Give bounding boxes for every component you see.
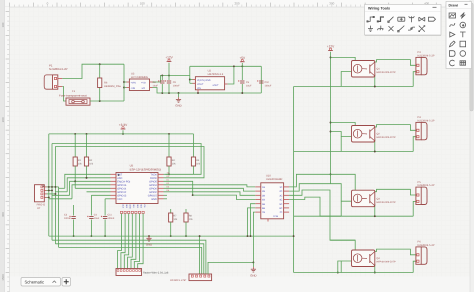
svg-text:HFP4N-009-Z07P: HFP4N-009-Z07P xyxy=(377,136,397,139)
wire U3 out+ rail xyxy=(153,76,190,83)
svg-text:NJ128H4-5-2P: NJ128H4-5-2P xyxy=(49,67,68,71)
right scrollbar xyxy=(470,0,474,292)
wire bottom rail 1 xyxy=(49,235,294,237)
junction xyxy=(330,173,332,175)
junction xyxy=(48,186,50,188)
wire loop B xyxy=(55,147,204,178)
svg-text:+5V: +5V xyxy=(239,56,246,60)
junction xyxy=(185,235,187,237)
wire Q3 source drop xyxy=(374,204,376,216)
add sheet button xyxy=(62,278,71,287)
wire U10 emitter rail xyxy=(208,212,255,274)
junction xyxy=(148,235,150,237)
tool icon net label xyxy=(398,17,405,21)
wire from R6 bottom xyxy=(99,88,101,102)
tool icon draw wire xyxy=(398,26,405,32)
wire Q4 drain to P6.1 xyxy=(375,249,416,255)
junction xyxy=(51,186,53,188)
ground GND2 xyxy=(252,267,254,269)
wire C4 bottom xyxy=(90,220,92,237)
resistor R6 xyxy=(98,78,102,88)
resistor R1 xyxy=(73,157,77,166)
wire C3 top xyxy=(73,205,75,216)
junction xyxy=(199,235,201,237)
junction xyxy=(241,92,243,94)
driver U10 ULN2003 xyxy=(261,183,284,219)
ground GND1 xyxy=(148,236,150,238)
wire Q4 source drop xyxy=(374,264,376,273)
wire +12V stub xyxy=(168,63,170,76)
junction xyxy=(104,235,106,237)
tool icon net port xyxy=(429,17,436,21)
junction xyxy=(178,92,180,94)
wire to R6 top xyxy=(99,64,101,78)
wire P2.1 jog xyxy=(47,186,59,188)
svg-text:Raster-Wire-2.54_1x8: Raster-Wire-2.54_1x8 xyxy=(143,271,169,274)
junction xyxy=(161,75,163,77)
wire gnd stub xyxy=(178,93,180,97)
ground GND power xyxy=(178,97,180,99)
svg-text:+12V: +12V xyxy=(165,56,173,60)
junction xyxy=(241,65,243,67)
wire MCU to U10 in3 xyxy=(164,192,256,196)
MCU U5 ESP-12F xyxy=(116,173,158,204)
wire Q3 left loop xyxy=(341,201,351,216)
wire Q3 bottom rail xyxy=(341,215,413,217)
tool icon ellipse xyxy=(460,51,466,57)
junction xyxy=(330,56,332,58)
wire R1 top xyxy=(74,134,76,157)
wire feed Q2 top xyxy=(331,123,356,126)
svg-text:2C: 2C xyxy=(279,190,282,193)
tool icon wire xyxy=(367,16,374,22)
wire GND2 stub xyxy=(252,262,254,267)
wire bottom rail 2 xyxy=(52,240,206,274)
connector P2 xyxy=(35,185,45,202)
wire rail left drop xyxy=(189,66,191,75)
wire Q1 drain to P3.1 xyxy=(375,60,416,66)
relay Q2 xyxy=(352,126,375,143)
svg-text:10uF: 10uF xyxy=(246,85,252,88)
regulator U2 xyxy=(195,77,224,90)
junction xyxy=(189,79,191,81)
resistor R8 xyxy=(184,213,188,222)
wire header pin 1 xyxy=(118,214,122,269)
wire U10 out3 to block4 xyxy=(289,190,355,240)
svg-text:200: 200 xyxy=(234,2,239,6)
wire Q2 bottom rail xyxy=(341,151,413,153)
wire mcuR3 jog xyxy=(164,181,193,195)
svg-text:ESP-12F(ESP8266MOD): ESP-12F(ESP8266MOD) xyxy=(130,167,162,171)
wire loop right side xyxy=(123,64,125,101)
svg-text:+VO: +VO xyxy=(141,81,146,84)
junction xyxy=(54,186,56,188)
tool icon bus xyxy=(377,17,384,22)
bottom status strip xyxy=(0,277,474,293)
wire Q2 left loop xyxy=(341,137,351,152)
wire Q2 drain to P4.1 xyxy=(375,125,416,131)
wire Q2 circle feed xyxy=(331,132,342,137)
wire R2 top xyxy=(86,134,88,157)
wire loop A xyxy=(52,144,201,175)
tool icon pencil xyxy=(450,41,456,47)
svg-text:1500: 1500 xyxy=(1,274,5,281)
svg-text:100nF: 100nF xyxy=(108,217,115,220)
junction xyxy=(168,92,170,94)
wire mcuR7 stub xyxy=(164,194,168,196)
wire V1 to block1 bottom xyxy=(294,86,342,88)
wire HF pin1 drop xyxy=(199,236,201,274)
net flag +3.3V xyxy=(121,128,126,130)
tool icon bus entry xyxy=(388,17,394,23)
wire V1 to Q2 bottom rail xyxy=(294,151,342,153)
junction xyxy=(374,272,376,274)
svg-text:+12V: +12V xyxy=(327,45,335,49)
wire Q3 to P5.2 xyxy=(413,201,416,216)
wire C8 top xyxy=(161,76,163,81)
junction xyxy=(252,261,254,263)
junction xyxy=(74,180,76,182)
tool icon image xyxy=(449,13,455,18)
tool icon probe xyxy=(408,27,415,30)
wire header pin 5 xyxy=(131,214,136,269)
svg-text:VI(12V) GND: VI(12V) GND xyxy=(197,79,211,82)
dc-dc module U3 xyxy=(129,79,149,91)
junction xyxy=(48,196,50,198)
junction xyxy=(99,100,101,102)
wire MCU L3 xyxy=(70,181,111,195)
wire to U3 pin1 xyxy=(124,81,127,83)
tool icon arrow xyxy=(450,32,455,37)
wire MCU L1 xyxy=(65,174,111,188)
junction xyxy=(90,235,92,237)
wire C8 bottom xyxy=(161,84,163,93)
wire bottom rail 4 xyxy=(59,247,202,274)
svg-text:+VIN: +VIN xyxy=(131,81,137,84)
svg-text:HFP4N-009-Z07P: HFP4N-009-Z07P xyxy=(377,261,397,264)
wire C9 top xyxy=(168,76,170,81)
wire jog L1 xyxy=(59,187,65,189)
junction xyxy=(293,235,295,237)
relay Q1 xyxy=(352,61,375,78)
wire bottom rail 3 xyxy=(55,244,203,274)
svg-text:VCC: VCC xyxy=(117,198,122,201)
capacitor C8 xyxy=(160,80,164,82)
wire R5 top xyxy=(193,134,195,157)
wire C4 top xyxy=(90,205,92,216)
wire mcuR2 xyxy=(164,177,166,179)
junction xyxy=(86,177,88,179)
wire R7 top xyxy=(170,209,172,213)
connector P5 xyxy=(416,187,421,204)
wire Q3 drain to P5.1 xyxy=(375,189,416,195)
wire MCU to U10 in1 xyxy=(164,185,256,187)
svg-text:GND: GND xyxy=(175,104,181,108)
wire header pin 2 xyxy=(121,214,125,269)
junction xyxy=(122,133,124,135)
junction xyxy=(74,133,76,135)
svg-text:4C: 4C xyxy=(279,199,282,202)
sheet tab Schematic xyxy=(21,278,61,287)
wire R4 bottom xyxy=(168,166,170,174)
net flag +12V b xyxy=(328,50,333,52)
tool icon net flag vcc xyxy=(409,16,415,22)
tool icon pie xyxy=(450,60,455,66)
capacitor C5 xyxy=(240,80,244,82)
wire rail V1 xyxy=(293,87,295,273)
wire bundle v2 xyxy=(51,144,53,241)
wire MCU L2 xyxy=(67,178,110,192)
wire R7 bottom xyxy=(170,222,172,236)
svg-text:UT: UT xyxy=(37,207,41,210)
wire mcuR1 xyxy=(164,173,166,175)
capacitor C3 xyxy=(71,216,75,218)
wire Q1 bottom rail xyxy=(341,86,413,88)
wire Q4 to P6.2 xyxy=(413,261,416,272)
wire fuse to loop xyxy=(90,100,124,102)
tool icon text xyxy=(460,32,466,37)
resistor R4 xyxy=(167,157,171,166)
svg-text:VIN: VIN xyxy=(197,87,201,90)
wire U2 out up xyxy=(228,66,234,84)
svg-text:5B: 5B xyxy=(262,203,265,206)
wire header pin 7 xyxy=(138,214,143,269)
wire rail right drop xyxy=(260,66,262,93)
wire MCU L5 xyxy=(75,187,110,189)
tool icon rect xyxy=(460,41,466,47)
tool icon table xyxy=(460,61,466,65)
Wiring Tools palette xyxy=(365,5,442,36)
junction xyxy=(74,180,76,182)
svg-text:COM: COM xyxy=(273,215,278,218)
net flag +12V xyxy=(167,61,172,63)
wire header pin 3 xyxy=(124,214,128,269)
connector P4 xyxy=(416,122,421,139)
tool icon bezier xyxy=(450,23,455,27)
wire U10 out2 up xyxy=(289,184,330,191)
connector P1 xyxy=(44,75,52,89)
junction xyxy=(374,86,376,88)
wire V1 to Q3 bottom rail xyxy=(294,215,342,217)
wire U2 input drop xyxy=(189,76,191,84)
svg-text:5C: 5C xyxy=(279,203,282,206)
svg-text:7C: 7C xyxy=(279,211,282,214)
header J1 1x8 xyxy=(116,269,142,276)
wire Q1 to P3.2 xyxy=(413,72,416,87)
wire C3 bottom xyxy=(73,220,75,237)
tool icon arc xyxy=(460,22,466,28)
svg-text:1B: 1B xyxy=(262,186,265,189)
capacitor C4 xyxy=(89,216,93,218)
svg-text:ULN2003ADR: ULN2003ADR xyxy=(266,178,283,181)
svg-text:-VIN: -VIN xyxy=(131,87,136,90)
svg-text:2B: 2B xyxy=(262,190,265,193)
svg-text:100nF: 100nF xyxy=(173,85,180,88)
wire ground rail xyxy=(153,88,262,94)
wire Q4 left loop xyxy=(340,261,342,273)
wire MCU L7 xyxy=(91,194,110,196)
svg-text:1C: 1C xyxy=(279,186,282,189)
junction xyxy=(197,92,199,94)
svg-text:VOUT: VOUT xyxy=(197,83,204,86)
junction xyxy=(233,65,235,67)
junction xyxy=(247,235,249,237)
wire P1.1 to top rail xyxy=(62,64,124,78)
junction xyxy=(250,235,252,237)
wire to U2 pin2 xyxy=(190,82,193,84)
wire Q2 source drop xyxy=(374,140,376,152)
wire MCU to U10 in4 xyxy=(193,195,256,199)
svg-text:+3.3V: +3.3V xyxy=(119,123,128,127)
svg-text:Wiring Tools: Wiring Tools xyxy=(368,6,390,10)
net flag +5V xyxy=(240,61,245,63)
tool icon polygon xyxy=(450,51,456,57)
junction xyxy=(73,235,75,237)
svg-text:10uF: 10uF xyxy=(94,217,100,220)
svg-text:10uF: 10uF xyxy=(153,85,159,88)
wire jog L3 xyxy=(52,194,70,196)
wire R1 bottom xyxy=(74,166,76,181)
wire Q2 to P4.2 xyxy=(413,137,416,152)
svg-text:HFP4N-009-Z07P: HFP4N-009-Z07P xyxy=(377,201,397,204)
wire mcuR1 ext xyxy=(166,173,170,175)
junction xyxy=(374,215,376,217)
wire header pin 4 xyxy=(128,214,133,269)
wire feed Q1 top xyxy=(331,57,356,60)
wire C11 up xyxy=(104,199,106,205)
wire C11 top xyxy=(104,205,106,216)
wire R2 bottom xyxy=(86,166,88,178)
tool icon no connect xyxy=(389,26,394,31)
svg-text:HFP4N-009-Z07P: HFP4N-009-Z07P xyxy=(377,71,397,74)
wire C9 bottom xyxy=(168,84,170,93)
svg-text:GND: GND xyxy=(250,273,256,277)
svg-text:vOUT: vOUT xyxy=(213,84,220,87)
junction xyxy=(168,133,170,135)
wire header pin 6 xyxy=(134,214,139,269)
wire feed Q4 top xyxy=(331,240,356,250)
tool icon ground xyxy=(368,26,373,32)
svg-text:Fuse-transparent-seat: Fuse-transparent-seat xyxy=(59,94,87,98)
relay Q3 xyxy=(352,190,375,207)
wire P1.2 to fuse xyxy=(62,87,66,102)
wire R8 bottom xyxy=(185,222,187,236)
tool icon ground earth xyxy=(377,26,383,31)
wire MCU L6 xyxy=(87,191,111,193)
junction xyxy=(86,133,88,135)
wire Q1 source drop xyxy=(374,75,376,87)
junction xyxy=(123,81,125,83)
svg-text:U3: U3 xyxy=(131,72,135,75)
wire Q4 bottom rail xyxy=(294,272,414,274)
junction xyxy=(54,193,56,195)
resistor R2 xyxy=(84,157,88,166)
Drawing Tools palette xyxy=(446,2,472,69)
junction xyxy=(99,63,101,65)
wire P2.2 jog xyxy=(47,189,53,191)
wire U10 in6 down xyxy=(248,208,256,236)
svg-text:6B: 6B xyxy=(262,207,265,210)
wire R8 top xyxy=(185,209,187,213)
junction xyxy=(337,272,339,274)
wire U10 out4 down xyxy=(289,197,341,216)
tool icon delete wire xyxy=(419,26,425,32)
svg-text:3C: 3C xyxy=(279,194,282,197)
svg-text:Drawi: Drawi xyxy=(449,3,459,7)
wire C5 top xyxy=(241,66,243,80)
svg-text:GND: GND xyxy=(151,198,157,201)
wire C4 up xyxy=(90,195,92,205)
junction xyxy=(374,151,376,153)
junction xyxy=(161,92,163,94)
wire bundle v4 xyxy=(58,187,60,248)
wire MCU L4 xyxy=(72,185,111,199)
svg-text:3B: 3B xyxy=(262,194,265,197)
svg-text:100: 100 xyxy=(1,22,5,27)
tool icon net flag conv xyxy=(419,17,425,21)
wire 3V3 rail xyxy=(49,133,194,135)
capacitor C10 xyxy=(259,80,263,82)
svg-text:100uF: 100uF xyxy=(265,85,272,88)
wire P2.4 jog xyxy=(47,196,49,198)
junction xyxy=(170,235,172,237)
svg-text:200: 200 xyxy=(1,117,5,122)
svg-text:4B: 4B xyxy=(262,199,265,202)
wire V1 to Q4 input xyxy=(338,261,352,273)
wire MCU to U10 in2 xyxy=(164,188,256,191)
svg-text:GND: GND xyxy=(146,242,152,246)
svg-text:6C: 6C xyxy=(279,207,282,210)
top ruler xyxy=(5,0,474,7)
junction xyxy=(330,122,332,124)
wire +5V stub xyxy=(241,63,243,66)
svg-text:HF228-5-2.5P: HF228-5-2.5P xyxy=(170,279,187,282)
svg-text:100: 100 xyxy=(140,2,145,6)
connector HF228 xyxy=(189,274,212,281)
svg-text:LM7805S-3.3: LM7805S-3.3 xyxy=(208,73,224,76)
capacitor C9 xyxy=(167,80,171,82)
svg-text:7B: 7B xyxy=(262,211,265,214)
left panel strip xyxy=(0,0,5,292)
tool icon line lightning xyxy=(461,13,465,19)
wire C5 bottom xyxy=(241,84,243,93)
wire mcuR8 stub xyxy=(164,198,168,200)
svg-text:100nF: 100nF xyxy=(64,217,71,220)
svg-text:300: 300 xyxy=(329,2,334,6)
wire to U3 pin2 xyxy=(124,87,127,89)
junction xyxy=(168,173,170,175)
wire jog L4 xyxy=(49,198,72,200)
junction xyxy=(168,75,170,77)
svg-text:-VO: -VO xyxy=(141,87,145,90)
junction xyxy=(86,177,88,179)
wire MCU L8 xyxy=(105,198,110,200)
wire P2.3 jog xyxy=(47,193,56,195)
wire Q1 left loop xyxy=(341,72,351,87)
svg-text:Schematic: Schematic xyxy=(25,280,45,285)
wire C11 bottom xyxy=(104,220,106,237)
wire jog L2 xyxy=(55,191,67,193)
svg-text:HES81M_Cha: HES81M_Cha xyxy=(104,85,121,88)
wire rail V2 xyxy=(330,52,332,184)
wire +3.3V stub xyxy=(122,130,124,134)
svg-text:300: 300 xyxy=(1,212,5,217)
wire +5V rail xyxy=(190,65,261,67)
capacitor C11 xyxy=(103,216,107,218)
wire R5 bottom xyxy=(193,166,195,174)
left ruler xyxy=(5,7,10,292)
svg-text:CLK: CLK xyxy=(121,204,124,209)
